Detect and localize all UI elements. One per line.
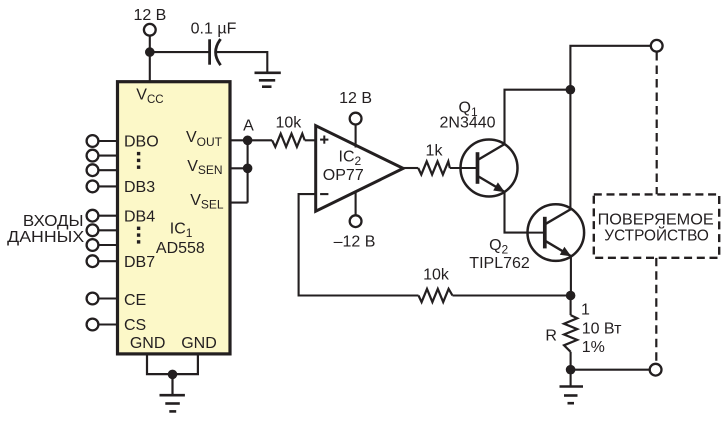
terminal top right xyxy=(651,40,663,52)
svg-text:AD558: AD558 xyxy=(156,240,205,257)
svg-text:1%: 1% xyxy=(582,339,605,356)
transistor Q1 xyxy=(459,140,518,197)
wire stub DB7 xyxy=(98,260,117,262)
svg-text:10k: 10k xyxy=(423,267,450,284)
terminal DB4 xyxy=(87,210,99,222)
terminal CS xyxy=(87,319,99,331)
ellipsis dots DB0-DB3 xyxy=(137,152,140,169)
wire op-amp output xyxy=(403,167,418,169)
svg-text:12 В: 12 В xyxy=(133,7,166,24)
resistor R 1 Ohm xyxy=(564,315,577,352)
wire Q1 collector up and right xyxy=(505,90,571,144)
wire +12V into op-amp xyxy=(355,125,357,148)
DUT dashed box xyxy=(594,194,719,257)
wire R to bottom node xyxy=(570,352,572,370)
plus input symbol xyxy=(320,136,328,144)
svg-text:ДАННЫХ: ДАННЫХ xyxy=(7,229,84,246)
wire VSEL stub xyxy=(230,202,248,204)
op-amp IC2 OP77 xyxy=(316,126,404,212)
svg-text:ВХОДЫ: ВХОДЫ xyxy=(23,213,84,230)
svg-text:DBO: DBO xyxy=(124,134,159,151)
terminal DB5 xyxy=(87,224,99,236)
terminal bottom right xyxy=(650,364,662,376)
wire GND left xyxy=(147,354,198,374)
wire 12V node to capacitor xyxy=(150,51,208,53)
wire stub DB1 xyxy=(98,155,117,157)
junction dot GND xyxy=(168,370,178,380)
dashed wire DUT to bottom terminal xyxy=(655,258,657,364)
svg-text:–12 В: –12 В xyxy=(334,234,376,251)
wire stub CS xyxy=(98,323,117,325)
wire Q2 emitter down xyxy=(570,256,572,295)
emitter arrow Q2 xyxy=(560,247,572,257)
svg-text:1k: 1k xyxy=(426,143,444,160)
wire stub CE xyxy=(98,297,117,299)
wire 12V down to VCC xyxy=(149,36,151,82)
wire Q1 emitter to Q2 base xyxy=(505,192,543,233)
terminal DB6 xyxy=(87,239,99,251)
wire -12V into op-amp xyxy=(355,191,357,216)
svg-text:DB4: DB4 xyxy=(124,209,155,226)
wire stub DB0 xyxy=(98,140,117,142)
svg-text:2N3440: 2N3440 xyxy=(440,115,496,132)
svg-text:R: R xyxy=(545,328,557,345)
wire bottom node to right terminal xyxy=(571,369,650,371)
wire stub DB3 xyxy=(98,185,117,187)
dashed wire top terminal to DUT xyxy=(656,52,658,194)
wire stub DB2 xyxy=(98,169,117,171)
svg-text:TIPL762: TIPL762 xyxy=(469,255,530,272)
svg-text:0.1 µF: 0.1 µF xyxy=(191,21,237,38)
junction dot emitter node xyxy=(566,291,576,301)
input terminals DB0..DB7, CE, CS xyxy=(87,135,99,330)
junction dot 12V/cap xyxy=(145,47,155,57)
junction VSEN xyxy=(243,164,253,174)
emitter arrow Q1 xyxy=(493,182,505,192)
wire VSEN stub xyxy=(230,167,248,169)
svg-text:DB3: DB3 xyxy=(124,179,155,196)
svg-text:УСТРОЙСТВО: УСТРОЙСТВО xyxy=(604,226,709,244)
svg-text:GND: GND xyxy=(130,335,166,352)
svg-text:ПОВЕРЯЕМОЕ: ПОВЕРЯЕМОЕ xyxy=(598,211,714,228)
transistor Q2 xyxy=(527,204,585,261)
GND wires below IC1 xyxy=(147,354,198,395)
ground (capacitor) xyxy=(256,73,280,87)
terminal DB7 xyxy=(87,255,99,267)
wire GND stub xyxy=(171,374,173,395)
wire VOUT to node A xyxy=(230,139,272,141)
wire feedback from op-amp minus input xyxy=(299,194,419,295)
svg-text:12 В: 12 В xyxy=(339,90,372,107)
wire capacitor to ground xyxy=(217,52,268,73)
wire 1k to Q1 base xyxy=(450,167,476,169)
terminal CE xyxy=(87,293,99,305)
svg-text:1: 1 xyxy=(581,301,590,318)
svg-text:10k: 10k xyxy=(276,114,303,131)
wire vertical to top terminal and Q2 collector xyxy=(570,46,650,209)
wire to resistor R xyxy=(570,296,572,316)
terminal -12V xyxy=(350,215,362,227)
junction node A xyxy=(243,136,253,146)
wire R1 to op-amp xyxy=(305,139,316,141)
svg-text:GND: GND xyxy=(181,335,217,352)
svg-text:OP77: OP77 xyxy=(323,167,364,184)
terminal DB2 xyxy=(87,164,99,176)
ground (IC1) xyxy=(160,395,185,411)
wire ground stub R xyxy=(570,370,572,387)
wire stub DB4 xyxy=(98,215,117,217)
minus input symbol xyxy=(320,193,328,195)
terminal +12V xyxy=(350,113,362,125)
terminal DB0 xyxy=(87,135,99,147)
wire stub DB6 xyxy=(98,244,117,246)
svg-text:CS: CS xyxy=(124,317,146,334)
resistor R1 10k xyxy=(272,134,305,147)
wire feedback to emitter node xyxy=(453,294,571,296)
terminal 12V xyxy=(144,24,156,36)
svg-text:DB7: DB7 xyxy=(124,254,155,271)
svg-text:CE: CE xyxy=(124,292,146,309)
resistor R2 1k xyxy=(418,161,450,174)
svg-text:A: A xyxy=(243,117,254,134)
junction dot collector rail xyxy=(566,85,576,95)
capacitor C1 0.1uF xyxy=(210,40,220,64)
terminal DB1 xyxy=(87,150,99,162)
resistor R3 10k feedback xyxy=(419,289,453,302)
svg-text:Q2: Q2 xyxy=(489,237,508,257)
svg-text:10 Вт: 10 Вт xyxy=(582,321,622,338)
ellipsis dots DB4-DB7 xyxy=(137,227,140,244)
wire stub DB5 xyxy=(98,229,117,231)
wire node A down to VSEL xyxy=(247,140,249,202)
IC IC1 AD558 box xyxy=(118,82,231,354)
junction dot bottom node xyxy=(566,365,576,375)
ground (R) xyxy=(560,387,584,404)
terminal DB3 xyxy=(87,181,99,193)
